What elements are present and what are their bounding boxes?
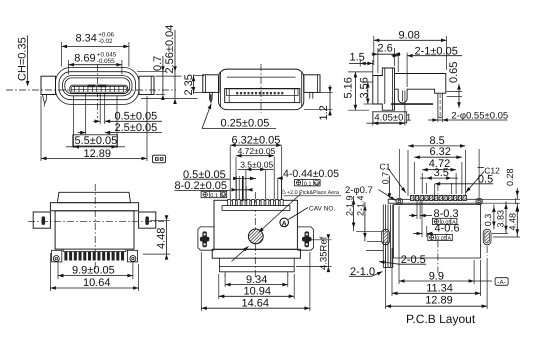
dim 0.5 front <box>99 94 101 124</box>
top view vertical centerline <box>254 192 256 278</box>
svg-text:0.28: 0.28 <box>505 168 515 186</box>
left flange slot <box>42 216 46 225</box>
svg-text:2.6: 2.6 <box>378 43 393 55</box>
svg-text:8.69: 8.69 <box>74 53 95 65</box>
top view seat plate <box>222 206 290 211</box>
dim 2.5 front <box>85 94 87 135</box>
svg-text:A: A <box>282 221 287 228</box>
dim 8-0.3 pcb <box>416 201 418 219</box>
dim 4.35Ref <box>309 239 332 241</box>
front view right mounting flange <box>139 76 154 94</box>
dim 3.56 <box>364 81 373 83</box>
pcb left slot lines <box>382 205 384 268</box>
svg-text:6.32±0.05: 6.32±0.05 <box>232 135 281 147</box>
profile beam and legs <box>395 74 446 104</box>
dim 0.25 leader <box>202 104 211 129</box>
svg-text:3.56: 3.56 <box>358 77 370 98</box>
dim 4.72 pcb <box>421 173 423 194</box>
svg-text:2.35: 2.35 <box>183 74 195 95</box>
rear left screw boss <box>52 250 62 262</box>
svg-text:2-φ0.7: 2-φ0.7 <box>345 185 373 196</box>
profile pcb baseline <box>391 103 433 105</box>
top view left wing <box>198 227 214 250</box>
dim 0.7 right <box>137 71 166 73</box>
front view tongue <box>70 85 128 93</box>
front view horizontal centerline <box>6 89 176 91</box>
right flange slot <box>145 216 149 225</box>
pcb trace strip <box>388 199 482 203</box>
dim 9.08 <box>373 36 375 65</box>
dim 3.5 pcb <box>425 183 427 194</box>
svg-text:2-φ0.55±0.05: 2-φ0.55±0.05 <box>451 111 508 122</box>
svg-text:9.9: 9.9 <box>429 271 444 283</box>
svg-text:3.5: 3.5 <box>434 167 449 179</box>
tongue mid line <box>71 88 126 90</box>
svg-text:+2.0 Pick&Place Aera: +2.0 Pick&Place Aera <box>287 190 339 196</box>
top view body <box>214 200 297 249</box>
svg-text:9.34: 9.34 <box>246 274 267 286</box>
dim 2.56 right <box>174 30 176 99</box>
profile left block <box>373 68 395 110</box>
profile through peg <box>438 93 442 117</box>
svg-text:-0.055: -0.055 <box>97 58 115 65</box>
svg-text:M: M <box>222 193 226 198</box>
side view right tab <box>304 75 320 93</box>
right wing rivet <box>305 231 310 247</box>
svg-text:14.64: 14.64 <box>242 297 270 309</box>
svg-text:4.35Ref: 4.35Ref <box>319 236 330 270</box>
pcb left oval pad <box>382 229 390 245</box>
rear pin header bar <box>63 249 126 251</box>
pcb board vertical centerline <box>437 241 439 274</box>
pick place note leader <box>259 194 302 233</box>
dim 8.5 pcb <box>398 149 400 198</box>
svg-text:1.5: 1.5 <box>350 51 365 63</box>
svg-text:0.65: 0.65 <box>448 62 460 83</box>
svg-text:0.1: 0.1 <box>304 181 312 187</box>
rear view horizontal centerline <box>28 220 164 222</box>
svg-text:1.2: 1.2 <box>318 105 330 120</box>
pcb right oval centerline <box>486 246 488 256</box>
top view right wing <box>297 227 313 250</box>
dim 5.16 <box>348 71 373 73</box>
dim 6.32 pcb <box>413 162 415 194</box>
profile block inner lines <box>377 76 379 105</box>
dim CH=0.35 leader <box>27 36 29 84</box>
dim 2.35 right <box>193 75 195 95</box>
dim 11.34 pcb <box>391 248 393 296</box>
svg-text:0.25±0.05: 0.25±0.05 <box>221 118 270 130</box>
dim 14.64 <box>200 252 202 311</box>
tongue contact dividers <box>74 86 76 92</box>
dim 4-0.6 pcb <box>421 201 423 237</box>
rear view main body <box>55 211 134 249</box>
right tab pin mark <box>309 92 311 98</box>
svg-text:5.16: 5.16 <box>343 77 355 98</box>
top view pins <box>228 200 231 206</box>
dim 4.05 boxed <box>372 111 374 126</box>
pcb board outline <box>393 205 480 259</box>
svg-text:-A-: -A- <box>497 279 505 286</box>
svg-text:2-1.4: 2-1.4 <box>356 195 366 216</box>
left flange solder pin <box>43 95 47 104</box>
rear view left flange <box>33 212 50 228</box>
svg-text:12.89: 12.89 <box>84 148 112 160</box>
CAV NO. text and leader <box>288 208 308 220</box>
rear view top cap <box>57 192 130 202</box>
svg-text:4.72±0.05: 4.72±0.05 <box>238 146 276 156</box>
contact band ticks <box>236 92 238 94</box>
dim 9.9 pcb <box>398 206 400 284</box>
svg-text:-0.02: -0.02 <box>98 38 113 45</box>
pcb tol box 1 <box>432 218 457 224</box>
rear view right flange <box>139 212 156 228</box>
pcb strip right end tick <box>515 198 517 204</box>
front view outer shell stadium <box>56 68 140 105</box>
svg-text:2.5±0.05: 2.5±0.05 <box>115 122 158 134</box>
svg-text:0.05: 0.05 <box>436 236 447 242</box>
dim 4.72 middle <box>235 157 237 199</box>
pick place arrow <box>232 246 249 261</box>
pcb strip right extension lines <box>482 198 520 200</box>
svg-text:4.48: 4.48 <box>507 213 517 231</box>
dim 0.65 <box>447 91 463 93</box>
dim 2.6 <box>377 48 379 73</box>
dim 10.64 rear <box>49 253 51 291</box>
tongue inner outline <box>71 86 126 92</box>
position tol box right <box>295 180 321 186</box>
svg-text:4.05±0.1: 4.05±0.1 <box>374 113 411 124</box>
dim 9.34 <box>224 274 226 287</box>
svg-text:4.48: 4.48 <box>156 228 168 249</box>
svg-text:2-1.9: 2-1.9 <box>344 195 354 216</box>
front view vertical centerline <box>97 64 99 118</box>
dim 10.94 <box>218 274 220 299</box>
left tab pin <box>209 92 212 102</box>
dim 1.2 side <box>320 91 333 93</box>
dim 3.5 middle <box>245 170 247 199</box>
dim 2-phi0.55 <box>437 117 439 123</box>
pin dim extension lines <box>235 176 237 200</box>
svg-text:9.08: 9.08 <box>399 29 420 41</box>
tongue dark contact 2 <box>98 85 107 88</box>
top view front housing <box>219 258 294 272</box>
dim 12.89 pcb <box>385 248 387 309</box>
side view body <box>219 69 304 110</box>
side view inner window <box>225 89 300 103</box>
dim 6.32 middle <box>229 146 231 199</box>
rear pins <box>64 252 67 261</box>
side view body inner lines <box>220 72 222 107</box>
rear right screw boss <box>127 250 137 262</box>
tongue dark contact 1 <box>88 85 96 88</box>
pcb tol box 2 <box>428 234 453 240</box>
left wing rivet <box>202 231 207 247</box>
dim 4.48 rear <box>150 220 170 222</box>
svg-text:3.5±0.05: 3.5±0.05 <box>240 159 273 169</box>
svg-text:A: A <box>447 236 451 242</box>
datum flag A front <box>153 155 166 163</box>
rear view vertical centerline <box>94 184 96 272</box>
svg-text:5.5±0.05: 5.5±0.05 <box>75 135 118 147</box>
front view shell stadium 2 <box>59 72 136 100</box>
front view shell stadium 4 <box>65 78 130 94</box>
svg-text:4-0.6: 4-0.6 <box>435 222 460 234</box>
pcb left ext stub <box>366 250 383 252</box>
front view shell stadium 3 <box>63 76 133 96</box>
side view roof inner line <box>227 76 296 78</box>
rear view shell band <box>50 203 138 211</box>
svg-text:2.56±0.04: 2.56±0.04 <box>164 25 176 74</box>
front view left mounting flange <box>41 76 56 94</box>
svg-text:0.7: 0.7 <box>380 172 390 185</box>
svg-text:12.89: 12.89 <box>425 295 453 307</box>
svg-text:10.64: 10.64 <box>83 277 111 289</box>
svg-text:0.3: 0.3 <box>483 214 493 227</box>
svg-text:P.C.B Layout: P.C.B Layout <box>406 312 476 326</box>
svg-text:9.9±0.05: 9.9±0.05 <box>72 265 115 277</box>
side view contact band <box>227 89 299 96</box>
side view left tab <box>203 75 219 93</box>
dim 12.89 front <box>40 96 42 161</box>
pcb left hole pad <box>396 198 402 204</box>
profile leg1 inner slot <box>402 91 404 102</box>
position tol box left <box>201 191 227 197</box>
svg-text:11.34: 11.34 <box>426 283 453 295</box>
svg-text:CH=0.35: CH=0.35 <box>17 37 29 81</box>
dim 9.9 rear <box>57 262 59 279</box>
datum circle A <box>280 218 289 227</box>
pcb right hole pad <box>476 198 482 204</box>
svg-text:6.32: 6.32 <box>430 146 451 158</box>
svg-text:M: M <box>315 181 319 186</box>
svg-text:CAV NO.: CAV NO. <box>309 205 335 212</box>
top view lower lip band <box>212 249 300 258</box>
svg-text:0.5±0.05: 0.5±0.05 <box>115 111 158 123</box>
svg-text:4-0.44±0.05: 4-0.44±0.05 <box>283 168 339 180</box>
svg-text:0.7: 0.7 <box>152 56 164 71</box>
front housing inner line <box>219 266 294 268</box>
pcb right oval pad <box>483 229 491 245</box>
svg-text:10.94: 10.94 <box>244 286 272 298</box>
dim 5.5 boxed <box>73 96 75 148</box>
svg-text:3.83: 3.83 <box>496 210 506 228</box>
side view vertical centerline <box>260 64 262 113</box>
svg-text:8.34: 8.34 <box>76 33 97 45</box>
datum flag A pcb <box>495 278 508 286</box>
svg-text:8.5: 8.5 <box>430 135 445 147</box>
svg-text:0.1: 0.1 <box>210 193 218 199</box>
